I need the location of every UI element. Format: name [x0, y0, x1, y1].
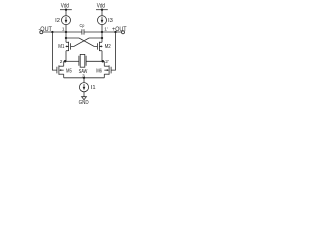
wire SAW to node 2'	[86, 60, 104, 62]
svg-text:M6: M6	[96, 69, 102, 75]
svg-text:I3: I3	[108, 18, 113, 24]
wire I1 to ground	[83, 92, 85, 97]
svg-text:2: 2	[60, 59, 63, 65]
wire node1 down to M1 drain	[65, 32, 67, 42]
current source I1	[79, 83, 95, 92]
svg-text:Vdd: Vdd	[61, 3, 69, 10]
junction dot node1'/gate-M6 riser	[114, 31, 116, 33]
junction dot node1'/I3	[101, 31, 103, 33]
wire M2 source to node 2'	[101, 51, 103, 62]
power net Vdd (right)	[96, 3, 108, 11]
svg-text:M2: M2	[105, 44, 111, 50]
wire M5 source down to node 3	[63, 74, 65, 78]
wire Vdd-right to I3	[101, 10, 103, 16]
ground	[79, 97, 89, 107]
svg-text:M5: M5	[66, 69, 72, 75]
wire M1 source to node 2	[65, 51, 67, 62]
wire node1' down to M2 drain	[101, 32, 103, 42]
svg-text:Cp: Cp	[80, 23, 85, 28]
wire cross-coupling node1 to gate of M2	[66, 38, 97, 46]
power net Vdd (left)	[60, 3, 72, 11]
current source I3	[98, 16, 113, 25]
current source I2	[55, 16, 70, 25]
junction dot node1' cross-couple tap	[101, 37, 103, 39]
wire M6 source down to node 3	[103, 74, 105, 78]
wire node 2 to SAW	[64, 60, 79, 62]
terminal -OUT	[38, 26, 52, 34]
svg-text:2′: 2′	[105, 59, 109, 65]
wire top rail left (node 1)	[43, 31, 82, 33]
junction dot node1 cross-couple tap	[65, 37, 67, 39]
transistor M2	[97, 42, 110, 51]
transistor M6	[96, 65, 111, 74]
wire node 3 rail	[64, 77, 105, 79]
junction dot node1/gate-M5 riser	[51, 31, 53, 33]
svg-text:Vdd: Vdd	[97, 3, 105, 10]
svg-text:GND: GND	[79, 100, 89, 106]
wire M5 drain up to node 2	[63, 61, 65, 66]
svg-text:M1: M1	[58, 44, 64, 50]
transistor M5	[57, 65, 72, 74]
SAW resonator	[79, 54, 88, 75]
wire I3 to node 1'	[101, 25, 103, 32]
wire node 3 to I1	[83, 78, 85, 83]
wire top rail right (node 1')	[84, 31, 122, 33]
wire M6 drain up to node 2'	[103, 61, 105, 66]
svg-text:I2: I2	[55, 18, 60, 24]
junction dot node1/I2	[65, 31, 67, 33]
wire cross-coupling node1' to gate of M1	[71, 38, 102, 46]
wire gate riser node1 to M5 gate	[52, 32, 57, 70]
capacitor Cp	[80, 23, 85, 34]
junction dot node 2	[64, 60, 67, 63]
transistor M1	[58, 42, 70, 51]
junction dot node 3	[83, 77, 85, 79]
terminal +OUT	[112, 26, 127, 34]
junction dot node 2'	[102, 60, 105, 63]
svg-text:I1: I1	[91, 85, 96, 91]
wire gate riser node1' to M6 gate	[111, 32, 115, 70]
wire I2 to node 1	[65, 25, 67, 32]
wire Vdd-left to I2	[65, 10, 67, 16]
